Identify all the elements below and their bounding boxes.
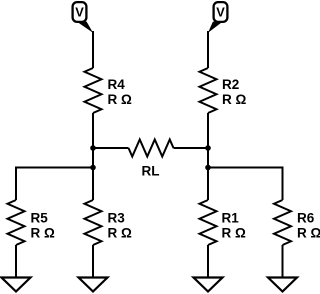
svg-text:R Ω: R Ω bbox=[31, 226, 56, 241]
svg-text:RL: RL bbox=[142, 164, 160, 179]
wire node A to RL bbox=[93, 147, 129, 149]
svg-text:R2: R2 bbox=[222, 77, 239, 92]
svg-text:R Ω: R Ω bbox=[222, 226, 247, 241]
wire node D to R6 bbox=[208, 168, 283, 201]
svg-text:R6: R6 bbox=[297, 211, 315, 226]
svg-text:R Ω: R Ω bbox=[108, 226, 133, 241]
resistor RL bbox=[129, 140, 174, 179]
node B junction dot (left, branch tap) bbox=[90, 165, 96, 171]
svg-text:R4: R4 bbox=[108, 77, 126, 92]
wire R3 to ground bbox=[92, 245, 94, 278]
wire R6 to ground bbox=[282, 245, 284, 278]
ground (under R1) bbox=[194, 278, 223, 292]
voltage source flag V1 (left) bbox=[73, 2, 93, 33]
wire node B to R5 bbox=[16, 168, 93, 201]
resistor R3 bbox=[85, 200, 133, 245]
voltage source flag V2 (right) bbox=[208, 2, 227, 33]
wire R2 to node C bbox=[207, 113, 209, 200]
svg-text:V: V bbox=[216, 4, 225, 19]
svg-text:R3: R3 bbox=[108, 211, 126, 226]
node C junction dot (right, RL tap) bbox=[205, 145, 211, 151]
resistor R5 bbox=[8, 200, 56, 245]
wire V1 to R4 bbox=[92, 31, 94, 68]
resistor R2 bbox=[200, 68, 247, 113]
ground (under R6) bbox=[268, 278, 297, 292]
ground (under R5) bbox=[2, 278, 31, 292]
svg-text:V: V bbox=[75, 4, 84, 19]
node D junction dot (right, branch tap) bbox=[205, 165, 211, 171]
resistor R4 bbox=[85, 68, 133, 113]
resistor R1 bbox=[200, 200, 247, 245]
node A junction dot (left, RL tap) bbox=[90, 145, 96, 151]
ground (under R3) bbox=[79, 278, 108, 292]
wire RL to node C bbox=[174, 147, 209, 149]
wire R5 to ground bbox=[15, 245, 17, 278]
svg-text:R Ω: R Ω bbox=[297, 226, 320, 241]
svg-text:R Ω: R Ω bbox=[222, 92, 247, 107]
wire V2 to R2 bbox=[207, 31, 209, 68]
svg-text:R Ω: R Ω bbox=[108, 92, 133, 107]
resistor R6 bbox=[274, 200, 320, 245]
wire R4 to node A bbox=[92, 113, 94, 200]
svg-text:R1: R1 bbox=[222, 211, 240, 226]
wire R1 to ground bbox=[207, 245, 209, 278]
svg-text:R5: R5 bbox=[31, 211, 49, 226]
